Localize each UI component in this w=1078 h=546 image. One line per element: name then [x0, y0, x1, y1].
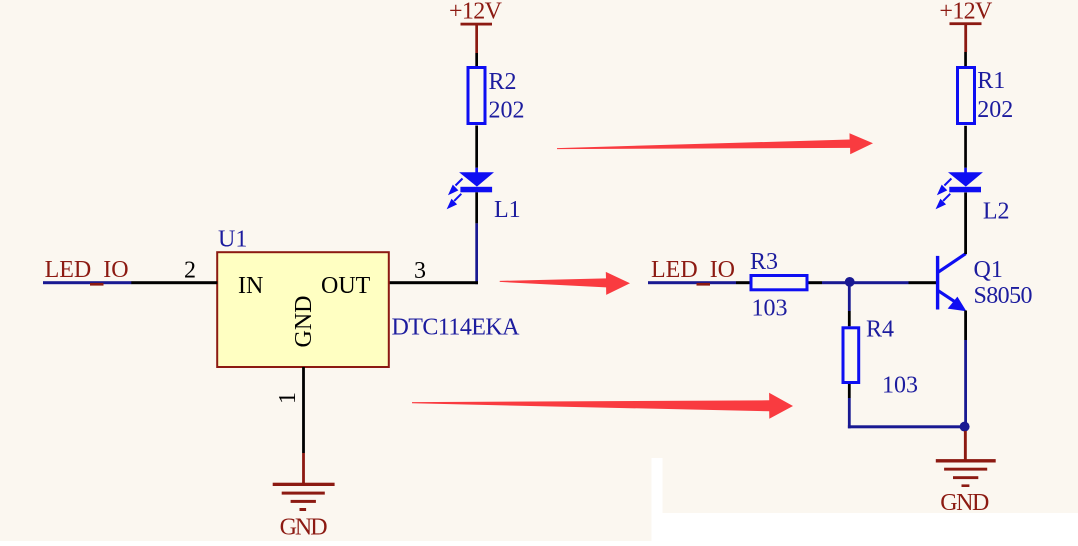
svg-text:U1: U1	[218, 226, 247, 252]
svg-text:3: 3	[414, 258, 426, 284]
svg-text:L1: L1	[494, 197, 521, 223]
svg-text:GND: GND	[940, 490, 989, 516]
svg-text:+12V: +12V	[449, 0, 503, 24]
svg-text:Q1: Q1	[974, 257, 1003, 283]
svg-text:L2: L2	[983, 199, 1010, 225]
svg-text:OUT: OUT	[321, 273, 371, 299]
svg-text:R1: R1	[977, 68, 1005, 94]
svg-text:GND: GND	[280, 515, 328, 541]
svg-text:R3: R3	[750, 249, 778, 275]
svg-text:2: 2	[184, 257, 196, 283]
svg-text:GND: GND	[291, 296, 317, 348]
svg-text:LED: LED	[45, 257, 92, 283]
svg-text:IO: IO	[103, 257, 128, 283]
svg-text:1: 1	[275, 392, 301, 404]
svg-text:+12V: +12V	[939, 0, 993, 24]
svg-text:103: 103	[882, 373, 918, 399]
svg-text:DTC114EKA: DTC114EKA	[392, 315, 521, 341]
svg-text:IO: IO	[710, 257, 735, 283]
svg-text:103: 103	[752, 296, 788, 322]
svg-text:R4: R4	[866, 317, 894, 343]
svg-text:IN: IN	[238, 273, 263, 299]
svg-text:202: 202	[977, 97, 1013, 123]
svg-text:S8050: S8050	[974, 283, 1033, 309]
svg-text:LED: LED	[651, 257, 698, 283]
svg-text:202: 202	[489, 98, 525, 124]
svg-text:R2: R2	[489, 69, 517, 95]
